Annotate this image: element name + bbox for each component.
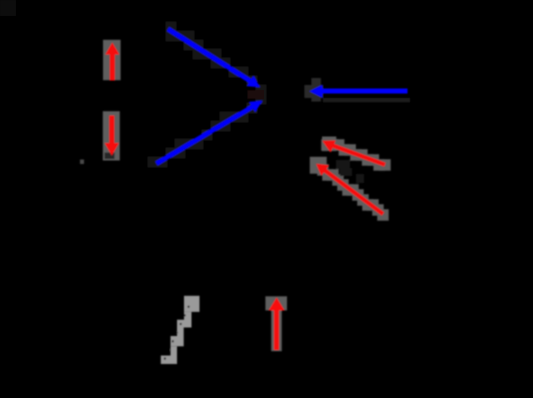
arrowhead of red arrow F [322, 141, 335, 153]
gray halo band of red arrow D [103, 40, 121, 80]
arrowhead of red arrow H [269, 298, 285, 311]
black dashed line over gray band [165, 303, 191, 360]
wire halo (dark) behind blue line B [148, 157, 159, 168]
gray halo band of red arrow E [103, 111, 120, 160]
blue line A (down-right) [168, 29, 253, 83]
red arrow D shaft (up) [110, 53, 115, 81]
faint marks between arrows F and G [336, 160, 350, 169]
gray stepped band block 3 [177, 320, 192, 328]
arrowhead of red arrow G [316, 164, 329, 176]
gray stepped band block 7 [161, 356, 177, 365]
arrowhead of red arrow E [105, 143, 119, 156]
red arrow F shaft (to upper-left) [333, 146, 385, 165]
arrowhead of blue line A [247, 76, 260, 88]
red arrow H shaft (up) [274, 309, 279, 350]
dark mark at bottom of E band [105, 153, 115, 160]
gray halo of red arrow H (head) [265, 296, 287, 310]
dark maroon mark between blue arrowheads [248, 90, 264, 99]
gray stepped band (highlight) block 1 [184, 296, 200, 312]
dark blotch near arrow C head [311, 78, 320, 102]
gray stepped band block 2 [184, 312, 192, 328]
gray halo blocks of red arrow F [322, 137, 336, 152]
gray stepped band block 6 [171, 346, 178, 355]
arrowhead of blue arrow C [310, 85, 323, 98]
red arrow E shaft (down) [109, 116, 114, 145]
gray halo blocks of red arrow G [310, 157, 327, 174]
arrowhead of blue line B [249, 101, 262, 112]
blue line B (up-right) [157, 106, 255, 164]
blue arrow C shaft (horizontal) [321, 89, 408, 94]
arrowhead of red arrow D [105, 43, 119, 55]
dark strip under arrow C [323, 98, 410, 102]
red arrow G shaft (to upper-left) [325, 171, 383, 214]
gray stepped band block 4 [177, 328, 184, 337]
tiny gray speck left of blue line B start [80, 160, 84, 165]
gray halo of red arrow H (shaft) [271, 310, 282, 351]
wire halo (dark) behind blue line A [166, 22, 177, 33]
gray stepped band block 5 [171, 336, 184, 346]
faint corner block [0, 0, 16, 16]
